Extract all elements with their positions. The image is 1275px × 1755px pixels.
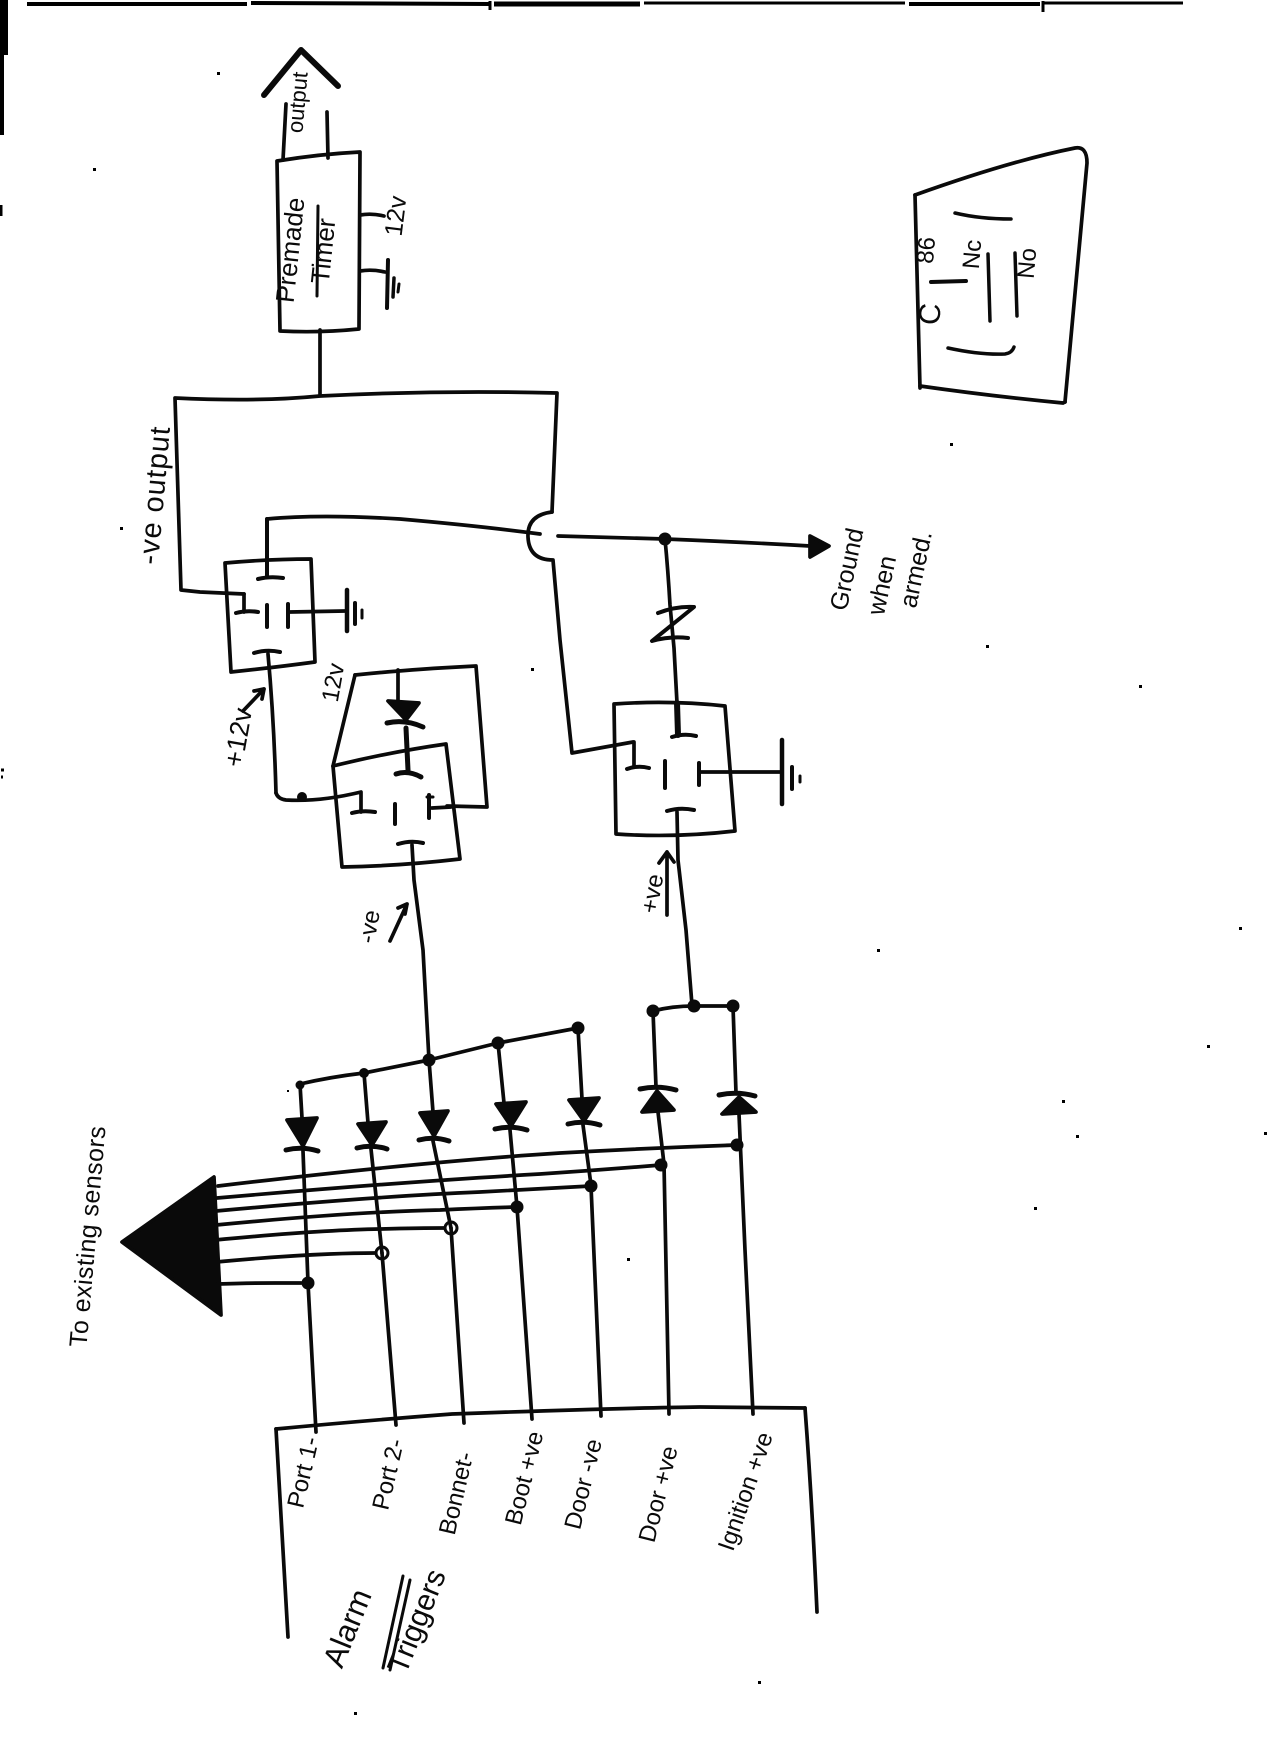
svg-text:86: 86 xyxy=(912,236,941,265)
svg-text:No: No xyxy=(1013,247,1043,280)
svg-text:Nc: Nc xyxy=(958,239,987,271)
svg-text:-ve: -ve xyxy=(353,908,385,946)
svg-text:12v: 12v xyxy=(380,194,413,238)
svg-text:output: output xyxy=(282,71,312,134)
svg-text:C: C xyxy=(913,302,948,326)
